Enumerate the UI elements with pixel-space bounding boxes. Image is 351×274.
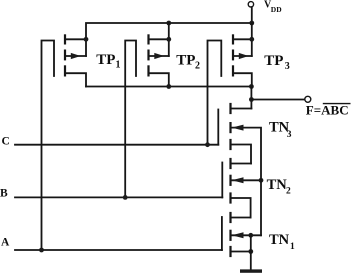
transistor TN1 source stub: [231, 251, 251, 253]
node TN1 source: [248, 249, 253, 254]
svg-text:2: 2: [195, 61, 200, 72]
wire input line B: [15, 196, 222, 198]
transistor TN1 body stub: [231, 234, 262, 236]
transistor TN2 source stub: [231, 198, 251, 218]
transistor TP1 drain stub: [65, 38, 86, 40]
transistor TP2 source stub: [149, 73, 169, 86]
transistor TN3 channel: [229, 104, 231, 149]
node TP3 drain: [249, 37, 254, 42]
transistor TP1 channel: [64, 35, 66, 75]
node A-TP1: [39, 248, 44, 253]
transistor TN2 drain stub: [231, 163, 252, 165]
wire VDD vertical: [251, 7, 253, 23]
node TP1 drain: [84, 37, 89, 42]
transistor TP1 gate lead wire: [42, 41, 55, 251]
transistor TP2 drain stub: [149, 38, 169, 40]
node rail-TP2: [166, 21, 171, 26]
transistor TN2 gate plate: [221, 163, 223, 198]
output terminal: [305, 96, 311, 102]
node output tee: [249, 97, 254, 102]
wire output node vertical: [250, 87, 252, 109]
transistor TP1 source stub: [65, 73, 86, 86]
transistor TN2 body stub: [231, 179, 262, 181]
wire output rail: [86, 86, 251, 88]
node rail-VDD: [249, 21, 254, 26]
transistor TN1 channel: [229, 213, 231, 256]
svg-text:TP: TP: [176, 53, 195, 69]
transistor TP3 source stub: [233, 73, 252, 86]
svg-text:2: 2: [286, 187, 291, 197]
node TP2 drain: [166, 37, 171, 42]
transistor TN3 drain stub: [231, 108, 252, 110]
transistor TP2 gate lead wire: [125, 41, 136, 198]
transistor TN3 body stub: [231, 128, 262, 181]
transistor TP3 body stub: [233, 55, 252, 57]
svg-text:TP: TP: [96, 52, 115, 68]
transistor TN1 gate plate: [221, 217, 223, 250]
wire to ground: [250, 235, 252, 269]
node TN1 body tee: [248, 233, 253, 238]
node bus-TN2 body: [259, 178, 264, 183]
svg-text:1: 1: [116, 60, 121, 71]
svg-text:F=ABC: F=ABC: [306, 102, 349, 117]
svg-text:1: 1: [290, 242, 295, 252]
wire top VDD rail: [86, 23, 252, 56]
transistor TP2 body stub: [149, 55, 169, 57]
transistor TP3 drain stub: [233, 38, 252, 40]
transistor TP1 body stub: [65, 55, 86, 57]
transistor TN1 drain stub: [231, 217, 251, 219]
svg-text:A: A: [1, 237, 10, 249]
node rail-TP2 source: [166, 84, 171, 89]
transistor TP2 channel: [147, 35, 149, 75]
node B-TP2: [123, 195, 128, 200]
svg-text:TP: TP: [264, 53, 283, 69]
wire output line: [251, 99, 304, 101]
wire input line C: [15, 144, 218, 146]
wire body bus lower: [260, 180, 262, 235]
transistor TP3 gate lead wire: [208, 41, 222, 145]
svg-text:3: 3: [287, 130, 292, 140]
wire input line A: [15, 249, 222, 251]
node output: [249, 84, 254, 89]
svg-text:B: B: [0, 188, 8, 200]
svg-text:DD: DD: [271, 5, 282, 14]
svg-text:TN: TN: [269, 232, 290, 248]
transistor TN2 channel: [229, 159, 231, 203]
ground: [240, 269, 262, 272]
VDD terminal: [248, 2, 253, 7]
svg-text:TN: TN: [267, 177, 288, 193]
svg-text:3: 3: [285, 61, 290, 72]
node C-TP3: [205, 142, 210, 147]
transistor TP3 channel: [232, 35, 234, 75]
svg-text:C: C: [2, 136, 10, 148]
transistor TN3 gate plate: [217, 110, 219, 145]
transistor TN3 source stub: [231, 145, 252, 164]
